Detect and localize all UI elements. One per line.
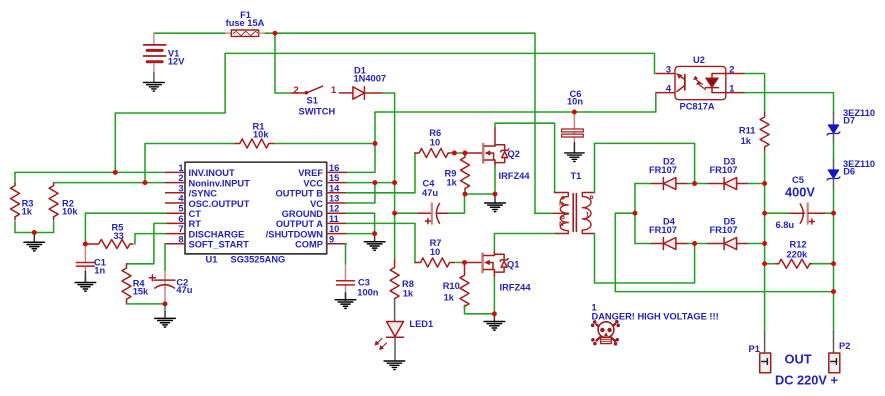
resistor R10 xyxy=(460,263,469,309)
wire net CT: pin5 to timing node xyxy=(85,213,165,244)
svg-text:3: 3 xyxy=(666,65,671,75)
wire /SHUTDOWN pin10 to ground node xyxy=(346,233,374,235)
svg-text:1k: 1k xyxy=(444,293,455,303)
junction R4/C2 ground node xyxy=(163,301,168,306)
svg-text:12: 12 xyxy=(329,204,339,214)
wire center tap to fuse rail xyxy=(535,212,552,214)
svg-text:CT: CT xyxy=(189,209,202,219)
wire R1 right to VREF node xyxy=(275,143,375,145)
junction negative rail to P2 column xyxy=(831,289,836,294)
junction bridge left node xyxy=(633,211,638,216)
wire R11 bottom to negative node xyxy=(764,152,766,184)
diode D4 FR107 xyxy=(635,238,688,250)
svg-text:100n: 100n xyxy=(357,288,379,298)
junction R9 bottom / C4 xyxy=(463,192,468,197)
capacitor C3 xyxy=(337,265,355,301)
IC U1 left pin stubs 1-8 xyxy=(166,172,185,243)
svg-text:FR107: FR107 xyxy=(710,225,738,235)
svg-text:D6: D6 xyxy=(843,167,855,177)
junction D3 right node xyxy=(762,181,767,186)
transformer polarity dot primary upper xyxy=(562,196,565,199)
IC U1 pin names left xyxy=(189,168,251,249)
junction bridge AC2 xyxy=(692,241,697,246)
zener diode D6 3EZ110 xyxy=(827,160,840,188)
wire D5 to right node xyxy=(749,243,765,245)
transformer T1 center tap lead xyxy=(552,212,568,214)
svg-text:1k: 1k xyxy=(22,207,33,217)
svg-text:C3: C3 xyxy=(358,278,370,288)
junction R12 left xyxy=(762,261,767,266)
svg-text:OSC.OUTPUT: OSC.OUTPUT xyxy=(189,199,250,209)
svg-text:P1: P1 xyxy=(749,344,760,354)
svg-text:3: 3 xyxy=(178,183,183,193)
wire D6 down the positive rail column xyxy=(833,188,835,292)
svg-text:5: 5 xyxy=(178,204,183,214)
transformer T1 primary winding lower xyxy=(556,214,568,233)
wire bridge AC2 from secondary bottom xyxy=(595,234,695,284)
IC U1 pin numbers left xyxy=(178,163,184,244)
junction shutdown/ground xyxy=(372,231,377,236)
junction C5 left xyxy=(762,211,767,216)
resistor R8 xyxy=(390,260,399,299)
svg-text:S1: S1 xyxy=(307,95,318,105)
svg-text:IRFZ44: IRFZ44 xyxy=(500,283,532,293)
junction NONINV at pin2 wire xyxy=(143,180,148,185)
svg-text:1: 1 xyxy=(586,212,590,219)
wire right node down to P1 xyxy=(764,184,766,332)
svg-text:R6: R6 xyxy=(429,128,441,138)
svg-text:T1: T1 xyxy=(571,171,582,181)
svg-text:10k: 10k xyxy=(253,129,269,139)
svg-text:220k: 220k xyxy=(787,250,809,260)
svg-text:DANGER! HIGH VOLTAGE !!!: DANGER! HIGH VOLTAGE !!! xyxy=(592,312,719,322)
transformer polarity dot secondary xyxy=(590,196,593,199)
capacitor C1 xyxy=(76,244,94,282)
ground at Q1 source xyxy=(484,314,505,330)
IC U1 pin names right xyxy=(266,168,324,249)
svg-text:N: N xyxy=(559,201,564,208)
svg-text:INV.INOUT: INV.INOUT xyxy=(189,168,235,178)
svg-text:Noninv.INPUT: Noninv.INPUT xyxy=(189,178,251,188)
wire R5 right up to pin7 DISCHARGE xyxy=(135,234,166,244)
svg-text:1n: 1n xyxy=(94,265,105,275)
wire P2 gray lead xyxy=(833,292,835,332)
transformer T1 secondary winding xyxy=(582,193,594,234)
resistor R12 xyxy=(776,259,812,268)
IC U1 SG3525ANG box xyxy=(185,162,327,254)
resistor R4 xyxy=(122,264,131,304)
junction VCC at D1 rail xyxy=(392,180,397,185)
transistor Q2 IRFZ44 xyxy=(465,128,509,167)
svg-text:1: 1 xyxy=(729,83,734,93)
wire U2 pin1 to zeners xyxy=(745,93,834,113)
svg-text:15k: 15k xyxy=(133,287,149,297)
junction bridge AC1 xyxy=(692,181,697,186)
zener diode D7 3EZ110 xyxy=(827,113,840,143)
resistor R9 xyxy=(461,153,470,191)
svg-text:8: 8 xyxy=(178,234,183,244)
junction C4 tap on VCC rail xyxy=(392,211,397,216)
svg-text:fuse 15A: fuse 15A xyxy=(226,18,265,28)
wire SOFT_START pin8 to C2 xyxy=(164,243,167,245)
fuse F1 xyxy=(226,30,265,36)
svg-text:P2: P2 xyxy=(839,341,850,351)
wire D2 to AC1 junction xyxy=(688,183,708,185)
wire Q2 drain to transformer top xyxy=(495,123,555,192)
wire Q1 drain to transformer bottom xyxy=(494,234,556,251)
svg-text:1N4007: 1N4007 xyxy=(354,74,387,84)
transformer T1 core xyxy=(573,194,576,232)
wire VCC to VC pin13 tie xyxy=(346,183,375,203)
junction Q2 source xyxy=(493,192,498,197)
svg-text:/SHUTDOWN: /SHUTDOWN xyxy=(266,229,324,239)
svg-text:14: 14 xyxy=(329,183,340,193)
svg-text:1: 1 xyxy=(178,163,183,173)
ground under battery xyxy=(144,83,165,92)
svg-text:R8: R8 xyxy=(402,279,414,289)
svg-text:10: 10 xyxy=(430,138,440,148)
wire VCC rail to C4 xyxy=(395,212,419,214)
diode D5 FR107 xyxy=(708,238,748,250)
ground at IC pin12/pin10 xyxy=(364,234,385,251)
svg-text:VREF: VREF xyxy=(298,168,323,178)
wire C4 right to Q2 source node xyxy=(449,194,465,213)
svg-text:IRFZ44: IRFZ44 xyxy=(499,171,531,181)
optocoupler U2 box xyxy=(675,66,726,99)
junction D5 right node xyxy=(762,241,767,246)
svg-text:47u: 47u xyxy=(422,188,438,198)
wire D1 cathode to VCC rail and down to R8 xyxy=(383,93,395,260)
svg-text:SOFT_START: SOFT_START xyxy=(189,240,250,250)
junction Q1 source xyxy=(492,311,497,316)
junction VCC tie xyxy=(372,180,377,185)
svg-text:COMP: COMP xyxy=(295,240,323,250)
resistor R7 xyxy=(415,258,455,267)
svg-text:13: 13 xyxy=(329,194,339,204)
capacitor C5 6.8u 400V polarized xyxy=(790,203,824,224)
svg-text:1k: 1k xyxy=(403,289,414,299)
svg-text:47u: 47u xyxy=(176,285,192,295)
svg-text:7: 7 xyxy=(178,224,183,234)
wire OUTPUT B pin14 to R6 xyxy=(346,153,415,193)
wire U2 pin2 to R11 xyxy=(745,74,765,113)
svg-text:FR107: FR107 xyxy=(649,225,677,235)
resistor R5 xyxy=(85,240,133,249)
svg-text:6.8u: 6.8u xyxy=(776,220,795,230)
svg-text:U1: U1 xyxy=(206,255,218,265)
svg-text:11: 11 xyxy=(329,214,339,224)
ground at R4/C2 xyxy=(164,304,166,312)
IC U1 right pin stubs 9-16 xyxy=(327,172,347,243)
resistor R3 xyxy=(14,172,16,232)
wire R7 right to Q1 gate node xyxy=(456,262,465,264)
wire C5 row xyxy=(765,212,834,214)
svg-text:RT: RT xyxy=(189,219,202,229)
wire D4 to AC2 junction xyxy=(688,243,708,245)
wire fuse junction down to switch xyxy=(275,33,292,93)
svg-text:C4: C4 xyxy=(423,179,436,189)
resistor R2 xyxy=(53,183,55,233)
junction fuse output xyxy=(273,31,278,36)
transformer polarity dot primary lower xyxy=(562,216,565,219)
resistor R11 xyxy=(760,113,769,152)
wire Q1 source green xyxy=(493,277,495,314)
svg-text:OUT: OUT xyxy=(785,352,812,367)
capacitor C4 47u polarized xyxy=(419,203,449,223)
diode D1 1N4007 xyxy=(353,87,383,99)
svg-text:10k: 10k xyxy=(62,207,78,217)
svg-text:GROUND: GROUND xyxy=(282,209,324,219)
svg-text:R12: R12 xyxy=(790,240,807,250)
svg-text:1k: 1k xyxy=(741,136,752,146)
resistor R1 xyxy=(235,139,275,148)
wire +12V battery to fuse xyxy=(154,33,535,213)
ground at C3 xyxy=(335,293,356,308)
svg-text:10n: 10n xyxy=(567,97,583,107)
wire R6 right to Q2 gate node xyxy=(451,152,465,154)
junction R10 top xyxy=(462,260,467,265)
svg-text:OUTPUT B: OUTPUT B xyxy=(275,189,323,199)
junction R12 right xyxy=(831,261,836,266)
LED LED1 xyxy=(375,322,403,350)
wire net NONINV: R2 top to pin2 and up to R1 left xyxy=(54,144,236,183)
U2 phototransistor xyxy=(677,74,685,92)
svg-text:4: 4 xyxy=(666,83,672,93)
resistor R6 xyxy=(415,148,453,157)
U2 led xyxy=(694,74,726,93)
ground at LED1 xyxy=(384,361,405,370)
svg-text:16: 16 xyxy=(329,163,339,173)
svg-text:N: N xyxy=(559,221,564,228)
svg-text:DISCHARGE: DISCHARGE xyxy=(189,229,245,239)
svg-text:/SYNC: /SYNC xyxy=(189,189,218,199)
svg-text:2: 2 xyxy=(178,173,183,183)
svg-text:9: 9 xyxy=(329,234,334,244)
wire R9 bottom to source node xyxy=(465,191,495,194)
svg-text:VC: VC xyxy=(310,199,323,209)
svg-text:SG3525ANG: SG3525ANG xyxy=(231,255,286,265)
svg-text:DC 220V +: DC 220V + xyxy=(775,373,838,388)
wire VCC pin15 to D1 rail xyxy=(346,182,394,184)
wire OUTPUT A pin11 to R7 xyxy=(346,223,415,262)
junction INV net at pin1 wire xyxy=(113,170,118,175)
diode D2 FR107 xyxy=(635,178,688,190)
wire LED1 cathode to ground xyxy=(394,337,396,361)
svg-text:D7: D7 xyxy=(843,116,855,126)
svg-text:Q2: Q2 xyxy=(508,149,520,159)
junction C5 right xyxy=(831,211,836,216)
wire GROUND pin12 down to ground xyxy=(346,213,374,233)
switch S1 xyxy=(292,86,353,94)
ground at C6 xyxy=(565,153,585,162)
capacitor C6 xyxy=(562,112,584,153)
wire R8 to LED1 xyxy=(394,299,396,321)
svg-text:400V: 400V xyxy=(785,185,815,200)
ground at R3/R2 xyxy=(24,233,45,251)
wire P1 gray lead xyxy=(764,332,766,354)
svg-text:FR107: FR107 xyxy=(649,165,677,175)
transistor Q1 IRFZ44 xyxy=(465,251,509,278)
svg-text:10: 10 xyxy=(430,247,440,257)
wire COMP pin9 to C3 xyxy=(345,244,348,265)
svg-text:SWITCH: SWITCH xyxy=(299,106,336,116)
connector P2 xyxy=(829,353,840,373)
wire bridge left node xyxy=(615,184,833,292)
capacitor C2 polarized xyxy=(164,244,166,271)
junction VREF node at R1 right xyxy=(373,141,378,146)
svg-text:FR107: FR107 xyxy=(710,165,738,175)
junction R9 top xyxy=(463,151,468,156)
wire between D7 and D6 xyxy=(833,142,835,160)
svg-text:1k: 1k xyxy=(447,178,458,188)
svg-text:4: 4 xyxy=(178,194,184,204)
ground at Q2 source xyxy=(485,194,506,212)
junction C6 tap on VREF wire xyxy=(572,110,577,115)
wire net INV: R3 top to pin1 and up-over to U2 pin3 xyxy=(15,53,657,172)
skull danger icon xyxy=(591,320,620,346)
wire net VREF: pin16 up and across to C6 and U2 pin4 xyxy=(346,93,657,173)
svg-text:Q1: Q1 xyxy=(507,260,519,270)
IC U1 pin numbers right xyxy=(329,163,340,244)
svg-text:15: 15 xyxy=(329,173,339,183)
junction R3/R2 ground node xyxy=(32,230,37,235)
svg-text:12V: 12V xyxy=(168,57,185,67)
transformer T1 primary winding upper xyxy=(555,193,569,214)
connector P1 xyxy=(760,353,771,373)
svg-text:LED1: LED1 xyxy=(409,319,433,329)
svg-text:OUTPUT A: OUTPUT A xyxy=(276,219,323,229)
ground at C1 xyxy=(75,275,96,291)
svg-text:R10: R10 xyxy=(443,281,460,291)
svg-text:33: 33 xyxy=(114,231,124,241)
wire net RT: pin6 down to R4 xyxy=(127,223,166,263)
wire D3 to right node xyxy=(749,183,765,185)
svg-text:PC817A: PC817A xyxy=(680,101,715,111)
svg-text:C5: C5 xyxy=(792,175,804,185)
wire bridge AC1 from secondary top xyxy=(595,143,695,192)
junction Q2 gate wire xyxy=(452,151,457,156)
diode D3 FR107 xyxy=(708,178,748,190)
wire R12 row xyxy=(765,263,834,265)
wire R4 bottom to ground node xyxy=(127,303,166,305)
svg-text:10: 10 xyxy=(329,224,339,234)
svg-text:VCC: VCC xyxy=(303,178,323,188)
svg-text:6: 6 xyxy=(178,214,183,224)
battery V1 xyxy=(144,33,166,72)
svg-text:2: 2 xyxy=(294,85,299,95)
wire R10 bottom to Q1 source node xyxy=(465,305,495,314)
junction CT timing node xyxy=(83,242,88,247)
svg-text:R11: R11 xyxy=(739,126,756,136)
svg-text:1: 1 xyxy=(331,85,336,95)
svg-text:2: 2 xyxy=(729,65,734,75)
wire R3 R2 bottoms to ground xyxy=(15,232,54,234)
wire Q2 source green xyxy=(494,166,496,194)
U2 pin stubs xyxy=(657,74,745,93)
svg-text:U2: U2 xyxy=(693,55,705,65)
